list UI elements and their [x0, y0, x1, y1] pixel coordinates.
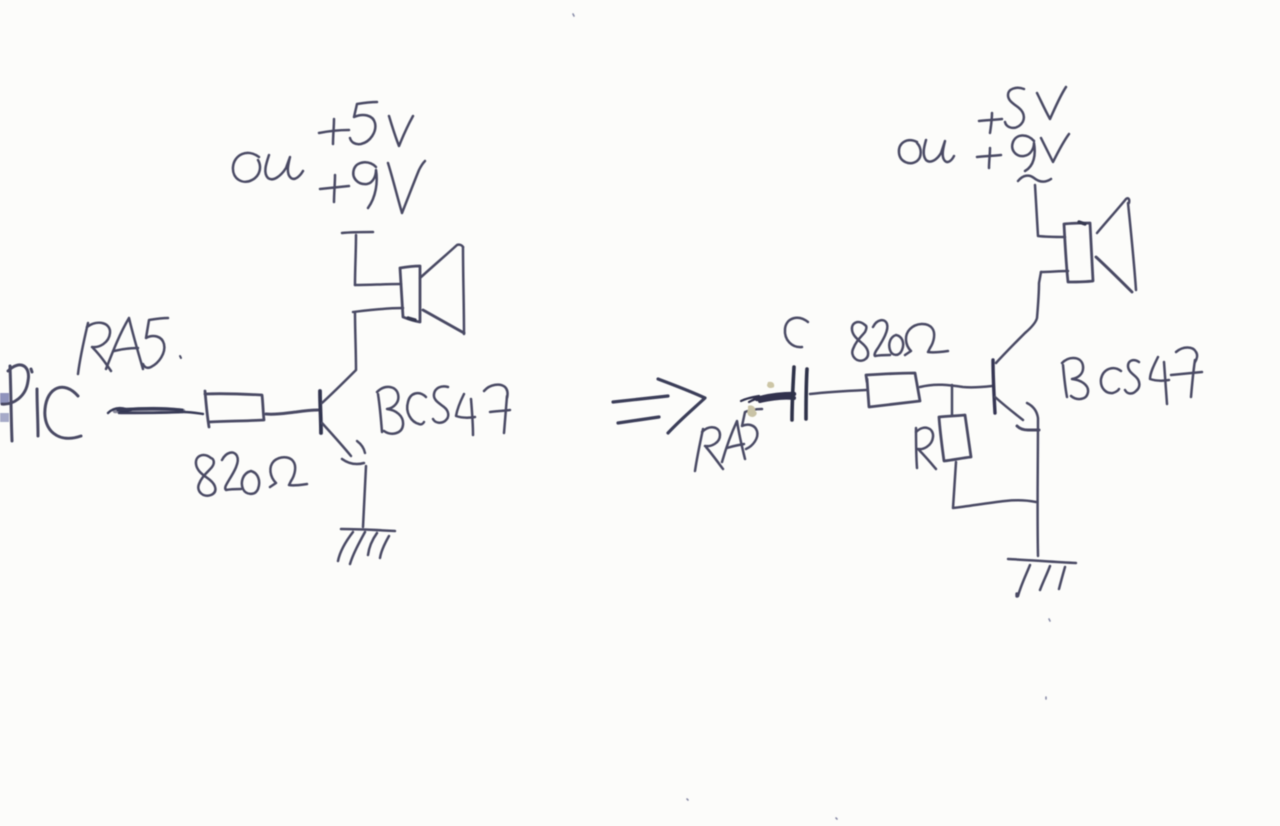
label +5V (right)	[979, 87, 1066, 133]
resistor R2 820R body (right)	[866, 373, 920, 407]
wire: supply down to speaker LS2 upper lead	[1035, 185, 1065, 237]
label +5V (left)	[319, 102, 413, 146]
resistor R body	[939, 415, 971, 461]
resistor R network: wire base junction down	[951, 385, 954, 415]
scanner artifact blocks at left edge	[0, 393, 9, 422]
ground symbol (right)	[1008, 559, 1076, 596]
transistor Q2 BC547 base bar	[993, 360, 995, 413]
label R	[916, 428, 936, 469]
speaker LS1 (left) driver rectangle	[400, 266, 420, 322]
label +9V (left)	[320, 161, 425, 213]
supply terminal T (left, +5V/+9V)	[342, 232, 373, 285]
label +9V (right)	[977, 134, 1069, 171]
transistor Q1 BC547 base bar	[320, 391, 321, 433]
speaker LS1 cone	[420, 245, 464, 334]
resistor R1 820R body (left)	[205, 391, 264, 427]
transistor Q1 emitter with arrow	[322, 423, 351, 456]
wire: Q1 emitter to ground	[363, 466, 366, 527]
capacitor C plates	[792, 367, 807, 420]
wire: speaker LS2 lower lead	[1041, 271, 1068, 272]
speaker LS2 (right) driver rectangle	[1064, 222, 1093, 282]
label 820 ohm (right)	[852, 320, 948, 361]
label PiC (microcontroller)	[2, 365, 81, 441]
speaker LS2 cone	[1096, 198, 1136, 292]
wire: R bottom to emitter line	[953, 462, 1036, 508]
label BC547 (right)	[1062, 348, 1202, 405]
label ou (left)	[233, 153, 303, 182]
supply squiggle (right)	[1018, 176, 1051, 182]
transistor Q2 emitter with arrow	[995, 397, 1023, 420]
label C	[785, 318, 808, 347]
label RA5 (left)	[78, 318, 168, 374]
stray dot after RA5	[180, 356, 181, 358]
wire: R2 to Q2 base	[920, 385, 992, 388]
transistor Q2 collector wire	[996, 272, 1041, 363]
tan smudge specks	[747, 382, 774, 417]
transistor Q1 collector wire up to speaker	[322, 312, 356, 403]
wire: supply to speaker LS1 upper lead	[355, 284, 401, 285]
label ou (right)	[899, 140, 954, 163]
wire: R1 to Q1 base	[266, 410, 318, 414]
stray paper specks	[573, 14, 1050, 819]
implication arrow =>	[613, 379, 705, 433]
wire: PIC RA5 output scribble to resistor R1	[108, 408, 203, 414]
label RA5 (right, slanted)	[695, 409, 762, 471]
wire: speaker LS1 lower lead to Q1 collector	[353, 308, 403, 312]
ground symbol (left)	[338, 529, 395, 564]
label 820 ohm (left)	[196, 453, 307, 496]
wire: Q2 emitter to ground	[1027, 403, 1038, 556]
wire: capacitor to resistor R2	[810, 390, 866, 394]
wire: RA5 to capacitor C (dark scribbled)	[741, 394, 794, 402]
label BC547 (left)	[377, 385, 510, 435]
